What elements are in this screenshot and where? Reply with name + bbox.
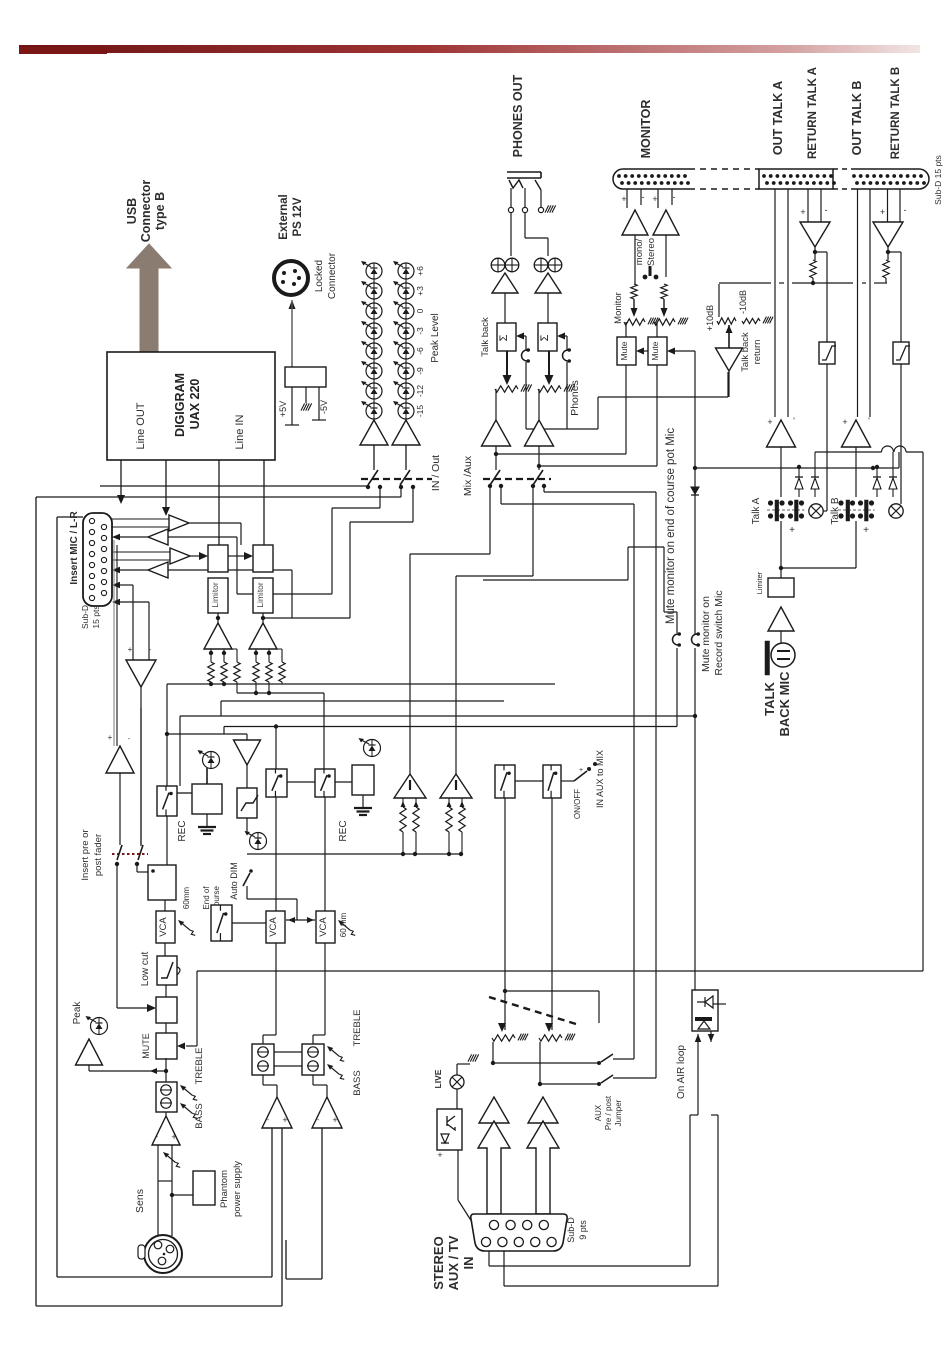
- USB arrow: [127, 244, 171, 352]
- svg-text:+: +: [621, 194, 626, 204]
- aux diff amp 1: [394, 774, 426, 798]
- wire pot-mute R: [656, 322, 658, 337]
- wire vca3-tone: [324, 943, 326, 1035]
- REC box 1: [192, 784, 222, 814]
- svg-text:9 pts: 9 pts: [578, 1220, 588, 1240]
- blade phones 2: [533, 470, 543, 485]
- wire LED D1: [177, 792, 192, 794]
- svg-text:Sub-D: Sub-D: [80, 605, 90, 629]
- svg-text:Phones: Phones: [569, 380, 581, 416]
- svg-text:Limitor: Limitor: [210, 582, 220, 608]
- svg-text:+: +: [863, 525, 869, 536]
- LED D3: [245, 831, 267, 850]
- wire mute L out: [625, 365, 627, 454]
- svg-text:AUX: AUX: [594, 1104, 603, 1121]
- on air loop arrows: [695, 1034, 702, 1042]
- right border drop: [922, 452, 924, 971]
- tone link wires: [274, 1051, 302, 1053]
- wire aux amp1 in: [493, 1123, 495, 1148]
- connector monitor segment: [613, 169, 689, 189]
- wire to inverter: [132, 585, 134, 660]
- treble pot arrow 1: [185, 1089, 193, 1095]
- arrow into insert connector 2: [162, 507, 170, 516]
- svg-text:UAX 220: UAX 220: [188, 379, 202, 430]
- bass pot arrow 1: [185, 1107, 193, 1113]
- wire phones sel 2: [538, 446, 540, 470]
- mix bus 3: [221, 700, 504, 702]
- arrow mute L: [636, 348, 644, 355]
- svg-text:-: -: [904, 205, 907, 215]
- wire aux2 down: [551, 798, 553, 1030]
- hollow arrow 2: [527, 1121, 559, 1214]
- phones amp 2: [535, 273, 561, 293]
- XLR plug tab: [138, 1245, 145, 1259]
- switch blade meter IN: [400, 470, 410, 485]
- aux res 1: [402, 798, 404, 807]
- connector talk B segment: [851, 169, 929, 189]
- wire meter contact b: [379, 487, 381, 508]
- -5V rail: [318, 387, 320, 420]
- svg-text:On AIR loop: On AIR loop: [676, 1045, 687, 1099]
- svg-text:+: +: [767, 417, 772, 427]
- svg-text:-: -: [673, 192, 676, 202]
- talk A diodes: [798, 467, 800, 477]
- limiter box talkback: [768, 578, 794, 597]
- jumper link mute rec: [692, 634, 697, 645]
- svg-text:-: -: [642, 192, 645, 202]
- aux switch box 1: [495, 765, 515, 798]
- live lamp: [450, 1075, 464, 1089]
- diode mute line: [691, 487, 699, 494]
- REC switch S1: [157, 786, 177, 816]
- svg-text:Monitor: Monitor: [613, 292, 624, 324]
- svg-text:Peak: Peak: [72, 1001, 83, 1025]
- peak meter LED column OUT: [373, 270, 375, 420]
- svg-text:Peak Level: Peak Level: [430, 313, 441, 362]
- svg-text:VCA: VCA: [268, 917, 279, 937]
- aux jumper 2: [597, 1082, 601, 1086]
- pan filter box: [237, 788, 257, 818]
- talkback trim wiper: [726, 325, 733, 333]
- wire fader1-amp: [495, 389, 497, 420]
- svg-text:Talk A: Talk A: [751, 497, 762, 524]
- svg-text:+: +: [880, 207, 885, 217]
- svg-text:Stereo: Stereo: [646, 238, 657, 266]
- bus 5 left drop: [223, 727, 225, 735]
- svg-text:REC: REC: [177, 820, 188, 841]
- monitor feed 2: [539, 465, 657, 467]
- tone box 2: [252, 1044, 274, 1075]
- MUTE box: [156, 1033, 177, 1059]
- arrow into sum box 1: [199, 552, 208, 560]
- shaper box A: [819, 342, 835, 364]
- mix bus 5: [224, 726, 677, 728]
- wire pin Line IN 2: [263, 460, 265, 545]
- wire L2 to amp: [262, 613, 264, 624]
- svg-text:VCA: VCA: [158, 917, 169, 937]
- wire mono switch: [634, 235, 636, 284]
- jack connector: [507, 171, 541, 173]
- return A to shaper: [815, 251, 827, 253]
- insert send amp A3: [170, 548, 190, 564]
- svg-text:+: +: [842, 417, 847, 427]
- wire amp mic: [780, 631, 782, 643]
- sens pot arrow: [168, 1156, 176, 1162]
- wire meter OUT contact to pin1: [100, 485, 368, 487]
- return A node: [814, 247, 816, 260]
- node phones contacts: [488, 484, 492, 488]
- aux in amp 2: [528, 1097, 558, 1123]
- REC switch S2b: [315, 769, 335, 797]
- svg-text:Limiter: Limiter: [755, 571, 764, 594]
- meter amp OUT: [360, 420, 388, 445]
- shaper box B: [893, 342, 909, 364]
- gain resistors channel 2: [255, 649, 257, 662]
- return B to shaper: [888, 251, 901, 253]
- svg-text:-12: -12: [415, 385, 425, 398]
- wire phantom: [172, 1194, 193, 1196]
- svg-text:type B: type B: [153, 192, 167, 230]
- wire pin Line OUT 1: [120, 460, 122, 486]
- wire talk B to limiter: [855, 521, 857, 568]
- tone box 3: [302, 1044, 324, 1075]
- return talk B pins: [887, 189, 889, 222]
- wire jack-sum1: [510, 213, 512, 256]
- svg-text:LIVE: LIVE: [433, 1069, 443, 1088]
- svg-text:MONITOR: MONITOR: [639, 100, 653, 159]
- wire vca3 chain: [324, 797, 326, 911]
- talkback trim network: [718, 284, 720, 317]
- node insert contacts: [115, 862, 119, 866]
- wire jack-sum2: [524, 213, 526, 238]
- svg-text:TREBLE: TREBLE: [194, 1048, 205, 1085]
- svg-text:Connector: Connector: [327, 252, 338, 299]
- svg-text:+: +: [579, 767, 583, 774]
- aux diff amp 2: [440, 774, 472, 798]
- svg-text:IN / Out: IN / Out: [430, 455, 442, 491]
- talkback mic symbol: [771, 643, 795, 667]
- wire pin Line OUT 2: [165, 460, 167, 497]
- wire lowcut out: [165, 985, 167, 997]
- insert send amp A1: [169, 515, 189, 531]
- treble pot arrow 23: [332, 1050, 340, 1056]
- VCA box 3: [316, 911, 335, 943]
- wire vca2 feed: [275, 727, 277, 770]
- ground: [305, 387, 307, 403]
- svg-text:-3: -3: [415, 327, 425, 335]
- return talk B amp: [873, 222, 903, 247]
- sum box 2: [253, 545, 273, 572]
- resistor bottoms to buses: [236, 682, 238, 693]
- svg-text:-: -: [825, 205, 828, 215]
- aux jumper 1: [597, 1061, 601, 1065]
- wire tone2-amp2: [262, 1075, 264, 1085]
- wire opto-subd: [457, 1150, 459, 1200]
- mute box R: [648, 337, 667, 365]
- +5V rail: [291, 387, 293, 425]
- svg-text:Pre / post: Pre / post: [604, 1095, 613, 1130]
- svg-text:+: +: [652, 194, 657, 204]
- wire phones contact d: [543, 486, 545, 492]
- arrow into insert connector 1: [117, 495, 125, 504]
- wire vca3 feed: [323, 693, 325, 769]
- wire A4 in: [168, 569, 292, 571]
- wire meter amp IN: [405, 445, 407, 470]
- arrow into compressor: [147, 1004, 156, 1012]
- hollow arrow 1: [478, 1121, 510, 1214]
- svg-text:-6: -6: [415, 347, 425, 355]
- svg-text:REC: REC: [338, 820, 349, 841]
- svg-text:+: +: [108, 733, 113, 742]
- mic input wires: [113, 540, 115, 746]
- jack ground: [545, 205, 556, 212]
- talk A amp feed: [780, 447, 782, 497]
- wire eoc: [232, 922, 266, 924]
- LED D4 peak: [86, 1016, 108, 1035]
- bus 3 left jog: [220, 701, 222, 716]
- svg-text:-5V: -5V: [319, 400, 329, 414]
- wire post fader: [116, 864, 118, 1008]
- svg-text:Talk back: Talk back: [740, 332, 751, 372]
- insert blade 2: [138, 845, 143, 860]
- REC box 2: [352, 765, 374, 795]
- svg-text:': ': [868, 416, 870, 426]
- aux switch box 2: [543, 765, 561, 798]
- svg-text:-15: -15: [415, 405, 425, 418]
- LED D2: [359, 738, 381, 757]
- svg-text:+: +: [789, 525, 795, 536]
- svg-text:TREBLE: TREBLE: [352, 1010, 363, 1047]
- wire S2a-S2b: [287, 781, 315, 783]
- svg-text:+: +: [332, 1115, 337, 1125]
- svg-text:Σ: Σ: [498, 334, 510, 341]
- connector J2 Insert MIC L-R Sub-D 15: [83, 513, 112, 606]
- aux jumper box line: [505, 990, 599, 992]
- svg-text:+: +: [282, 1115, 287, 1125]
- wire jumper1: [676, 648, 678, 727]
- connector XLR mic: [144, 1235, 182, 1273]
- svg-text:BACK MIC: BACK MIC: [777, 671, 792, 737]
- switch Mix/Aux dashed: [483, 478, 551, 480]
- monitor pot L: [631, 308, 638, 317]
- svg-text:IN AUX to MIX: IN AUX to MIX: [595, 750, 605, 808]
- monitor feed 1: [496, 453, 626, 455]
- phones fader 2: [545, 375, 554, 385]
- svg-text:RETURN TALK B: RETURN TALK B: [890, 67, 902, 159]
- gain resistors channel 1: [210, 649, 212, 662]
- talk B lamp: [889, 504, 903, 518]
- svg-text:60mm: 60mm: [182, 887, 191, 910]
- svg-text:Sub-D: Sub-D: [566, 1217, 576, 1243]
- return B resistor: [883, 260, 889, 278]
- wire phones contact b: [500, 486, 502, 504]
- wire amp1-sigma1: [504, 293, 506, 323]
- mute command wire: [694, 351, 696, 634]
- mix bus 4: [180, 715, 695, 717]
- monitor resistor R: [661, 284, 667, 299]
- aux fader 2: [545, 1023, 553, 1032]
- wire vca2-tone: [275, 943, 277, 1035]
- wire shaper A to lamp: [826, 364, 828, 511]
- svg-text:PS 12V: PS 12V: [292, 197, 304, 236]
- phantom supply box: [193, 1171, 215, 1205]
- switch IN/Out dashed line: [361, 478, 432, 480]
- REC ground 1: [206, 814, 208, 826]
- wire jumper2: [694, 648, 696, 716]
- inner border left: [56, 517, 58, 1277]
- limiter box L2: [253, 578, 273, 613]
- talk A lamp: [809, 504, 823, 518]
- VCA box 2: [266, 911, 285, 943]
- talk command bus lower: [695, 467, 899, 469]
- mute loop bottom: [197, 970, 923, 972]
- LED D1: [198, 750, 220, 769]
- svg-text:+10dB: +10dB: [705, 305, 715, 331]
- monitor pins: [626, 189, 628, 208]
- svg-text:Mute monitor on: Mute monitor on: [700, 596, 712, 672]
- svg-text:Mix /Aux: Mix /Aux: [462, 455, 474, 496]
- svg-text:Connector: Connector: [139, 180, 153, 243]
- wire talkback feed: [525, 362, 527, 429]
- svg-text:Sub-D 15 pts: Sub-D 15 pts: [933, 155, 943, 205]
- fader dashed gang: [489, 997, 576, 1024]
- svg-text:Phantom: Phantom: [219, 1170, 230, 1208]
- pan feed line: [167, 733, 247, 735]
- header rule: [19, 45, 920, 53]
- svg-text:Mute: Mute: [650, 341, 660, 360]
- connector dashed link 1: [689, 168, 759, 170]
- talk B output amp: [842, 420, 871, 447]
- svg-text:+6: +6: [415, 266, 425, 276]
- talk A switch block: [767, 509, 805, 511]
- aux onoff switch: [561, 780, 574, 782]
- line amp U3: [204, 623, 232, 649]
- wire vca2 chain: [275, 797, 277, 911]
- meter amp IN: [392, 420, 420, 445]
- arrow into connector 6: [112, 599, 120, 605]
- wire fader1 tap: [492, 1042, 494, 1063]
- monitor pot R: [661, 308, 668, 317]
- wire amp-xlr: [157, 1145, 159, 1236]
- wire phones sel 1: [495, 446, 497, 470]
- insert return amp A2: [148, 529, 168, 545]
- wire fader2-amp: [538, 389, 540, 420]
- outer border left: [35, 497, 37, 1306]
- wire A1 out: [189, 522, 241, 524]
- wire meter IN contact to pin2: [400, 487, 402, 497]
- wire lamp-opto: [456, 1089, 458, 1109]
- auto dim switch: [243, 873, 250, 886]
- svg-text:-10dB: -10dB: [738, 290, 748, 314]
- svg-text:BASS: BASS: [352, 1070, 363, 1095]
- talk B amp feed: [855, 447, 857, 497]
- pan box: [234, 740, 261, 765]
- svg-text:Low cut: Low cut: [140, 952, 151, 987]
- wire pan to LED: [246, 818, 248, 833]
- line amp ch2: [262, 1097, 292, 1128]
- svg-text:RETURN TALK A: RETURN TALK A: [807, 67, 819, 159]
- wire aux amp2 in: [542, 1123, 544, 1148]
- out talk B wires: [857, 189, 859, 417]
- svg-text:Jumper: Jumper: [614, 1099, 623, 1126]
- wire S2b-RECbox: [335, 781, 352, 783]
- aux sum line: [247, 853, 461, 855]
- wire phones contact a: [489, 486, 491, 554]
- wire A5 out: [140, 687, 142, 846]
- svg-text:0: 0: [415, 308, 425, 313]
- svg-text:USB: USB: [125, 198, 139, 224]
- wire amp2-sigma2: [547, 293, 549, 323]
- svg-text:VCA: VCA: [318, 917, 329, 937]
- svg-text:Limitor: Limitor: [255, 582, 265, 608]
- svg-text:Mute: Mute: [619, 341, 629, 360]
- svg-text:Sens: Sens: [134, 1189, 146, 1213]
- mix bus 1: [167, 683, 555, 685]
- phones amp 1: [492, 273, 518, 293]
- connector dashed link 2: [833, 168, 851, 170]
- svg-text:post fader: post fader: [93, 834, 104, 876]
- wire rec2 ground: [362, 795, 364, 807]
- sum box 1: [208, 545, 228, 572]
- svg-text:External: External: [278, 194, 290, 239]
- hop 2: [894, 446, 906, 452]
- wire talkback return: [728, 371, 730, 397]
- talkback inject 2: [557, 333, 565, 340]
- low cut box: [157, 956, 177, 985]
- wire meter amp OUT: [373, 445, 375, 470]
- jumper link mute pot: [673, 634, 679, 645]
- VCA box 1: [156, 911, 175, 943]
- wire tone-amp: [165, 1112, 167, 1118]
- talkback return amp: [716, 348, 743, 371]
- svg-text:Insert MIC / L-R: Insert MIC / L-R: [69, 511, 80, 585]
- xfrm circles 1: [491, 258, 505, 272]
- bus 4 left drop: [179, 716, 181, 786]
- wire to mute: [165, 1023, 167, 1033]
- svg-text:Talk back: Talk back: [480, 317, 491, 357]
- wire fader-VCA: [164, 900, 166, 911]
- mix bus 2: [237, 692, 324, 694]
- wire VCA1 out: [164, 943, 166, 956]
- svg-text:60 mm: 60 mm: [339, 912, 348, 937]
- talk B switch block: [838, 509, 875, 511]
- wire shaper B to lamp: [900, 364, 902, 504]
- line amp U4: [249, 623, 277, 649]
- monitor resistor L: [631, 284, 637, 299]
- svg-text:Σ: Σ: [539, 334, 551, 341]
- peak amp: [76, 1039, 103, 1065]
- aux in amp 1: [479, 1097, 509, 1123]
- phones out amp 1: [482, 420, 511, 446]
- wire mute out: [165, 1058, 167, 1082]
- svg-text:+: +: [171, 1132, 176, 1142]
- wire pan: [246, 765, 248, 788]
- insert return amp A4: [148, 562, 168, 578]
- REC switch S2a: [266, 769, 287, 797]
- line amp ch3: [312, 1097, 342, 1128]
- talk B diodes: [876, 467, 878, 477]
- svg-text:Line OUT: Line OUT: [135, 402, 147, 449]
- svg-text:-9: -9: [415, 367, 425, 375]
- monitor amp R: [653, 210, 679, 235]
- svg-text:IN: IN: [461, 1257, 476, 1270]
- mic amp U2: [106, 746, 134, 773]
- stereo in right return: [321, 1128, 323, 1279]
- opto coupler box: [437, 1109, 462, 1150]
- svg-text:OUT TALK A: OUT TALK A: [771, 81, 785, 155]
- VCA3 pot arrow: [343, 924, 351, 930]
- talkback inject 1: [516, 333, 524, 340]
